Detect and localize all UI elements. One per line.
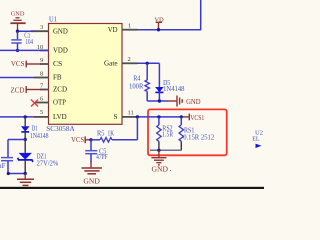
- svg-text:GND: GND: [152, 165, 169, 173]
- pin 3 GND stub: [31, 24, 68, 35]
- capacitor C5 47PF: [85, 140, 108, 168]
- svg-text:CS: CS: [53, 60, 62, 68]
- pin 9 CS stub: [40, 57, 62, 68]
- node junction C1/VDD wire: [16, 49, 19, 52]
- svg-text:0.15R 2512: 0.15R 2512: [183, 133, 214, 141]
- power port GND top-left: [10, 10, 25, 31]
- svg-text:VDD: VDD: [53, 47, 68, 55]
- node junction at LVD/D1: [24, 115, 27, 118]
- svg-text:LVD: LVD: [53, 113, 67, 121]
- svg-text:3: 3: [40, 24, 43, 31]
- wire LVD to left edge: [0, 116, 34, 118]
- U2 optocoupler LED (clipped): [256, 144, 262, 148]
- svg-text:5: 5: [40, 109, 43, 116]
- svg-text:GND: GND: [11, 10, 25, 17]
- svg-text:GND: GND: [83, 177, 99, 185]
- wire S junction down: [136, 117, 138, 140]
- wire RS2/RS1 bottoms: [150, 149, 181, 151]
- pin 8 FB stub: [34, 70, 62, 81]
- power port VD: [154, 16, 164, 29]
- pin 11 S stub: [114, 110, 138, 121]
- svg-text:100R: 100R: [129, 81, 144, 90]
- pin 10 VDD stub: [37, 44, 68, 55]
- svg-text:FB: FB: [53, 74, 62, 82]
- ground symbol under C5: [82, 168, 103, 174]
- wire down to cap: [7, 140, 9, 158]
- svg-text:27V/2%: 27V/2%: [37, 159, 59, 168]
- svg-text:104: 104: [26, 37, 34, 46]
- svg-text:.: .: [170, 165, 172, 173]
- svg-text:ZCD: ZCD: [11, 88, 25, 95]
- pin 5 LVD stub: [34, 109, 67, 121]
- wire junction left to filter cap: [8, 139, 25, 141]
- diode D1 1N4148: [21, 117, 49, 140]
- wire FB to left edge: [0, 77, 34, 79]
- svg-text:SC3058A: SC3058A: [46, 124, 75, 133]
- ground symbol under RS2: [151, 150, 166, 165]
- pin 1 VD stub: [108, 23, 138, 34]
- node junction VCS/R5/C5: [89, 138, 92, 141]
- svg-text:ZCD: ZCD: [53, 86, 67, 94]
- svg-text:OTP: OTP: [53, 99, 66, 107]
- ground symbol bottom-left: [17, 174, 34, 186]
- svg-text:1: 1: [128, 23, 131, 30]
- svg-text:GND: GND: [186, 98, 200, 106]
- svg-text:U1: U1: [49, 15, 57, 24]
- svg-text:47PF: 47PF: [96, 152, 108, 161]
- svg-text:R5: R5: [97, 129, 105, 138]
- node junction Gate/R4: [146, 62, 149, 65]
- svg-text:S: S: [114, 113, 118, 121]
- node junction at S pin: [136, 115, 139, 118]
- resistor R5 1K: [91, 129, 137, 142]
- red highlight box around sense resistors: [148, 109, 227, 155]
- capacitor C1: [11, 31, 33, 51]
- svg-text:GND: GND: [53, 27, 68, 35]
- wire VDD to left edge: [0, 49, 49, 51]
- pin 2 Gate stub: [104, 56, 138, 67]
- power port VCS at CS pin: [11, 61, 41, 68]
- svg-text:1K: 1K: [108, 129, 115, 138]
- node junction RS2 bottom: [157, 149, 160, 152]
- pin 7 ZCD stub: [40, 82, 67, 93]
- resistor RS1 0.15R 2512: [179, 117, 215, 150]
- wire VD pin to corner: [138, 29, 201, 31]
- power port GND (right-pointing) at R4/D5: [168, 96, 201, 107]
- svg-text:1.5R: 1.5R: [162, 130, 173, 138]
- svg-text:VD: VD: [108, 26, 118, 34]
- svg-text:VCS: VCS: [71, 137, 84, 144]
- power port VCS at sense filter: [71, 136, 91, 144]
- svg-text:11: 11: [128, 110, 134, 117]
- resistor RS2 1.5R: [157, 117, 174, 150]
- node junction D5 bottom: [158, 99, 161, 102]
- svg-text:2: 2: [128, 56, 131, 63]
- capacitor (nF) at left edge: [0, 158, 13, 174]
- svg-text:nF: nF: [0, 161, 6, 170]
- wire corner up to top edge: [200, 0, 202, 30]
- wire cap bottom to ground node: [8, 173, 25, 175]
- wire R4/D5 bottoms to ground port: [147, 100, 168, 102]
- schematic window bottom edge: [0, 187, 264, 189]
- resistor R4 100R: [129, 63, 149, 101]
- wire GND junction to pin 3: [18, 30, 35, 32]
- wire Gate pin to D5: [138, 62, 160, 64]
- node junction RS2 top: [157, 115, 160, 118]
- svg-text:1N4148: 1N4148: [163, 84, 185, 93]
- svg-text:Gate: Gate: [104, 60, 118, 68]
- node junction DZ1/cap/ground: [24, 172, 27, 175]
- svg-text:VCS1: VCS1: [190, 114, 204, 122]
- node junction at VD port: [157, 28, 160, 31]
- svg-text:9: 9: [40, 57, 43, 64]
- wire S pin to RS1: [137, 116, 181, 118]
- svg-text:VCS: VCS: [11, 61, 25, 68]
- zener diode DZ1 27V/2%: [18, 140, 59, 174]
- node junction at GND/C1: [16, 30, 19, 33]
- wire junction down to C1: [17, 31, 19, 39]
- svg-text:EL: EL: [252, 135, 259, 142]
- node junction D1/DZ1/cap: [24, 138, 27, 141]
- power port VCS1: [183, 114, 205, 123]
- no-connect X on OTP: [31, 100, 38, 107]
- svg-text:8: 8: [40, 70, 43, 77]
- power port ZCD at ZCD pin: [11, 86, 42, 94]
- pin 6 OTP stub: [35, 95, 66, 106]
- node junction RS1 top: [180, 115, 183, 118]
- diode D5 1N4148: [155, 63, 185, 101]
- svg-text:1N4148: 1N4148: [30, 131, 49, 140]
- IC U1 SC3058A body: [49, 24, 123, 125]
